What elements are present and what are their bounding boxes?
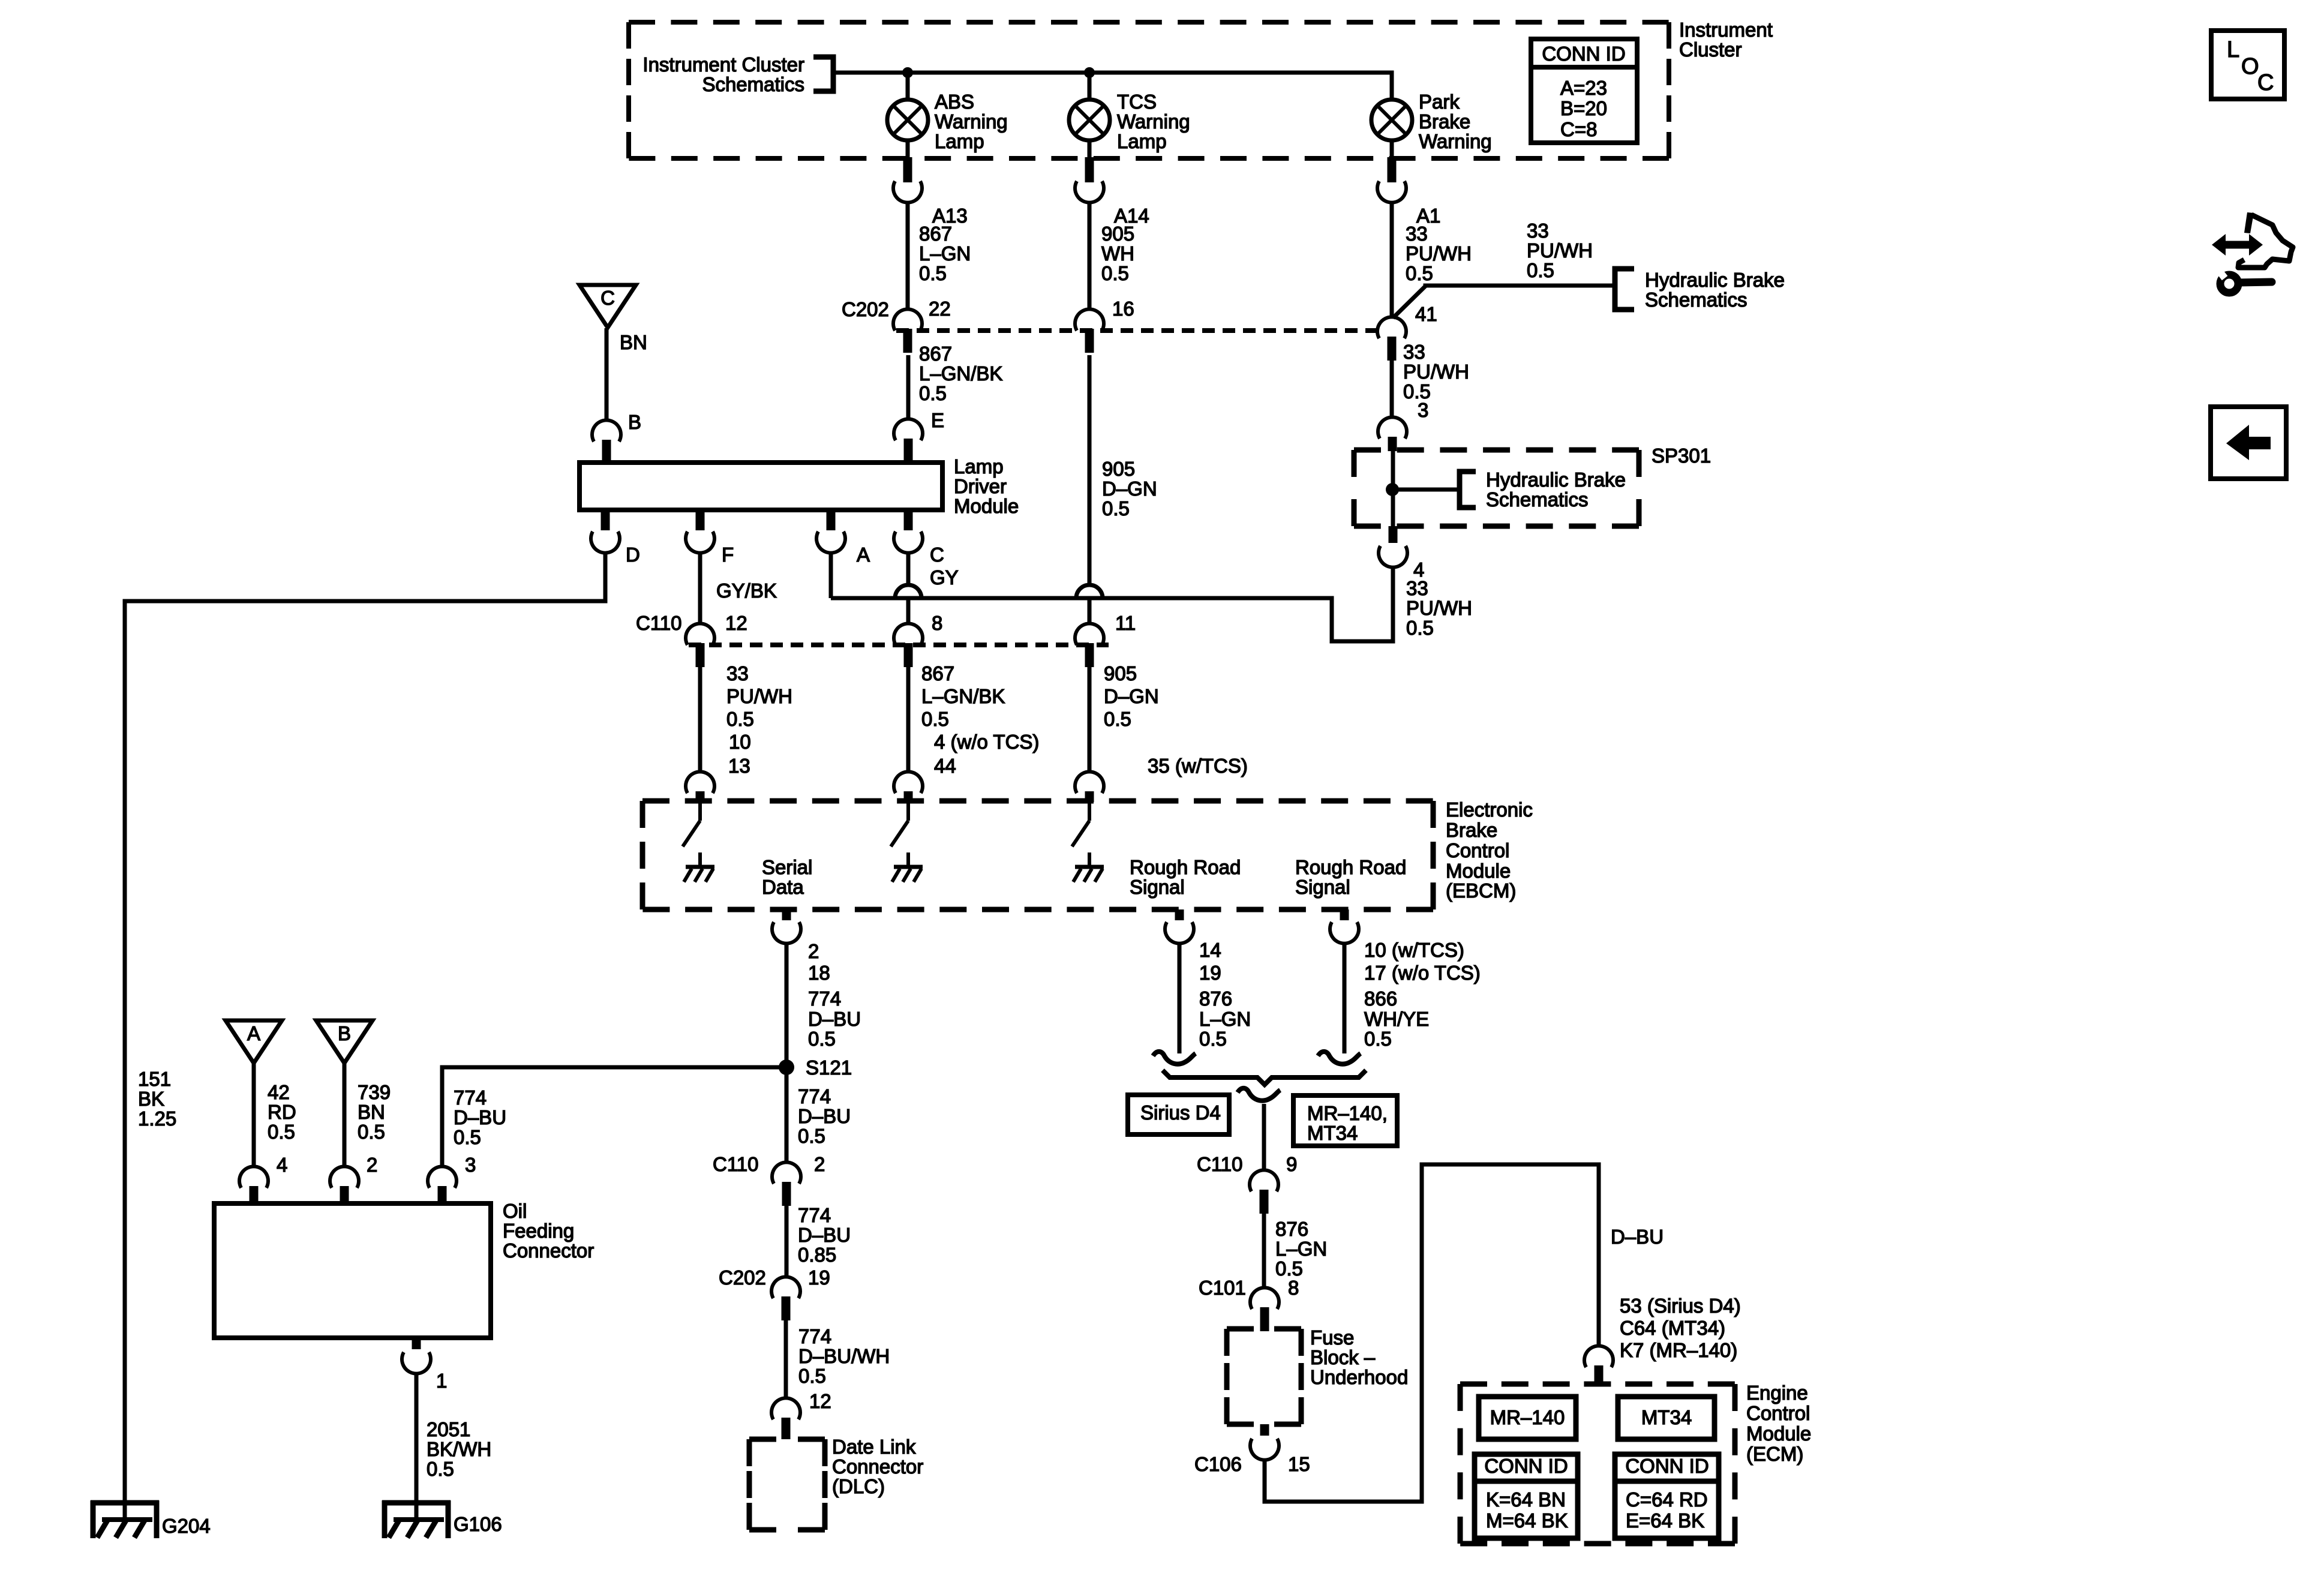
connector: fuse block pin 15 bbox=[1250, 1424, 1279, 1460]
svg-text:A: A bbox=[857, 544, 870, 566]
instrument cluster dashed box bbox=[629, 22, 1669, 158]
label: circuit 33 PU/WH 0.5 (F) bbox=[726, 662, 792, 730]
label: ECM pins bbox=[1620, 1295, 1741, 1361]
wire: jumper A/C to SP301 pin 4 bbox=[831, 567, 1393, 641]
wire: through SP301 bbox=[1391, 451, 1395, 526]
wire: 876 to C101 bbox=[1262, 1213, 1266, 1288]
svg-text:1: 1 bbox=[436, 1370, 447, 1392]
wire: serial data EBCM to S121 bbox=[785, 943, 789, 1067]
svg-text:A=23: A=23 bbox=[1560, 77, 1607, 99]
label: pin 3 (SP301) bbox=[1418, 399, 1428, 421]
svg-text:Cluster: Cluster bbox=[1679, 38, 1742, 61]
svg-text:876: 876 bbox=[1275, 1218, 1308, 1240]
svg-text:Lamp: Lamp bbox=[935, 130, 984, 152]
svg-text:D–GN: D–GN bbox=[1102, 478, 1157, 500]
svg-text:0.5: 0.5 bbox=[454, 1126, 481, 1148]
box: MR-140 MT34 bbox=[1293, 1095, 1397, 1146]
wire: ABS lamp drop bbox=[906, 73, 910, 100]
svg-text:866: 866 bbox=[1364, 987, 1397, 1010]
svg-text:33: 33 bbox=[726, 662, 749, 685]
svg-text:0.5: 0.5 bbox=[919, 382, 947, 404]
connector: triangle C bbox=[580, 285, 636, 328]
svg-text:L–GN: L–GN bbox=[1199, 1008, 1251, 1030]
connector: triangle A bbox=[226, 1020, 282, 1063]
svg-text:D–BU: D–BU bbox=[454, 1106, 506, 1128]
svg-text:C202: C202 bbox=[719, 1266, 766, 1289]
svg-text:Control: Control bbox=[1746, 1402, 1810, 1424]
svg-text:L–GN: L–GN bbox=[919, 242, 971, 265]
svg-text:Park: Park bbox=[1419, 91, 1460, 113]
wire: 876 from EBCM pin 14 bbox=[1178, 943, 1182, 1053]
label: C101 bbox=[1199, 1277, 1246, 1299]
connector: EBCM pin 2 bbox=[772, 909, 801, 944]
svg-text:0.5: 0.5 bbox=[1364, 1028, 1392, 1050]
svg-text:B=20: B=20 bbox=[1560, 97, 1607, 119]
label: circuit 33 PU/WH 0.5 (branch) bbox=[1527, 220, 1593, 281]
svg-text:B: B bbox=[338, 1022, 351, 1044]
lamp: Park Brake Warning bbox=[1371, 91, 1492, 152]
label: circuit 774 D-BU 0.5 (branch) bbox=[454, 1086, 506, 1148]
label: D-BU bbox=[1611, 1226, 1664, 1248]
node: junction dot TCS feed bbox=[1084, 67, 1095, 78]
module: Data Link Connector dashed box bbox=[749, 1436, 923, 1530]
svg-text:Module: Module bbox=[954, 495, 1019, 517]
node: junction dot ABS feed bbox=[902, 67, 913, 78]
label: circuit 876 L-GN 0.5 (low) bbox=[1275, 1218, 1327, 1280]
switch: EBCM 867 input bbox=[891, 801, 908, 846]
label: BN bbox=[620, 331, 647, 353]
brace: option select bbox=[1163, 1070, 1366, 1085]
wire: lamp lead A13 bbox=[906, 140, 910, 160]
svg-text:D: D bbox=[626, 544, 640, 566]
bracket: Hydraulic Brake Schematics (SP301) bbox=[1460, 469, 1626, 511]
svg-text:0.5: 0.5 bbox=[798, 1125, 825, 1147]
hop: GY wire over jumper bbox=[895, 585, 921, 598]
connector: C202 pin 22 bbox=[893, 298, 951, 353]
svg-text:C110: C110 bbox=[636, 612, 681, 634]
svg-text:C202: C202 bbox=[842, 298, 889, 320]
svg-text:41: 41 bbox=[1415, 303, 1437, 325]
wire: 42 RD bbox=[252, 1063, 256, 1167]
connector: cluster pin A13 bbox=[893, 157, 968, 227]
svg-text:CONN ID: CONN ID bbox=[1542, 43, 1625, 65]
lamp: TCS Warning Lamp bbox=[1069, 91, 1190, 152]
svg-text:Oil: Oil bbox=[503, 1200, 527, 1222]
wire: LDM A to jumper bbox=[829, 553, 833, 598]
connector: oil pin 1 bbox=[402, 1338, 447, 1392]
svg-text:TCS: TCS bbox=[1117, 91, 1157, 113]
svg-text:0.5: 0.5 bbox=[1102, 497, 1130, 520]
connector: C202 pin 19 bbox=[771, 1266, 830, 1320]
module: EBCM dashed box bbox=[642, 801, 1433, 909]
svg-text:Underhood: Underhood bbox=[1310, 1366, 1408, 1388]
bracket: Hydraulic Brake Schematics (top) bbox=[1615, 269, 1785, 311]
svg-text:C64 (MT34): C64 (MT34) bbox=[1620, 1317, 1725, 1339]
svg-text:(ECM): (ECM) bbox=[1746, 1443, 1803, 1465]
svg-text:905: 905 bbox=[1101, 223, 1134, 245]
svg-text:15: 15 bbox=[1288, 1453, 1310, 1475]
connector: C202 pin 41 bbox=[1377, 303, 1437, 361]
svg-text:Lamp: Lamp bbox=[1117, 130, 1167, 152]
wire: TCS lamp drop bbox=[1088, 73, 1092, 100]
svg-text:0.5: 0.5 bbox=[798, 1365, 826, 1387]
svg-text:BN: BN bbox=[620, 331, 647, 353]
connector: LDM pin B bbox=[592, 420, 621, 463]
svg-text:53 (Sirius D4): 53 (Sirius D4) bbox=[1620, 1295, 1741, 1317]
label: Engine Control Module (ECM) bbox=[1746, 1382, 1811, 1465]
svg-text:MT34: MT34 bbox=[1307, 1122, 1358, 1144]
svg-text:11: 11 bbox=[1115, 612, 1136, 634]
wire: lamp lead A1 bbox=[1390, 140, 1394, 160]
switch: EBCM serial data bbox=[683, 801, 700, 846]
connector: LDM pin C bbox=[894, 510, 944, 566]
svg-text:WH/YE: WH/YE bbox=[1364, 1008, 1429, 1030]
bracket: Instrument Cluster Schematics bbox=[642, 53, 833, 95]
svg-text:Date Link: Date Link bbox=[832, 1436, 916, 1458]
svg-text:0.5: 0.5 bbox=[1406, 262, 1433, 284]
connector: EBCM pin (905) bbox=[1075, 772, 1104, 802]
connector: LDM pin E bbox=[894, 419, 923, 463]
svg-text:L–GN: L–GN bbox=[1275, 1238, 1327, 1260]
svg-text:GY: GY bbox=[930, 566, 959, 589]
svg-text:0.5: 0.5 bbox=[921, 708, 949, 730]
wire: S121 to C110-2 bbox=[785, 1067, 789, 1163]
svg-text:3: 3 bbox=[1418, 399, 1428, 421]
svg-text:CONN ID: CONN ID bbox=[1484, 1455, 1568, 1477]
label: circuit 33 PU/WH 0.5 (A1) bbox=[1406, 223, 1472, 284]
label: circuit 774 D-BU 0.85 bbox=[798, 1204, 851, 1266]
connector: C110 pin 9 bbox=[1250, 1153, 1297, 1214]
label: GY/BK (pin F) bbox=[716, 580, 777, 602]
icon: LOC box bbox=[2211, 31, 2284, 99]
svg-text:Instrument Cluster: Instrument Cluster bbox=[642, 53, 804, 76]
svg-text:C110: C110 bbox=[713, 1153, 758, 1175]
svg-text:Connector: Connector bbox=[503, 1239, 594, 1262]
label: C106 bbox=[1194, 1453, 1242, 1475]
table: CONN ID (cluster) bbox=[1531, 39, 1637, 143]
svg-text:2: 2 bbox=[367, 1154, 377, 1176]
svg-text:10: 10 bbox=[729, 731, 751, 753]
label: circuit 867 L-GN/BK 0.5 (C) bbox=[921, 662, 1005, 730]
connector: cluster pin A1 bbox=[1377, 157, 1440, 227]
label: C110 (option) bbox=[1197, 1153, 1242, 1175]
svg-text:774: 774 bbox=[798, 1085, 831, 1107]
switch: EBCM 905 input bbox=[1072, 801, 1089, 846]
label: circuit 739 BN 0.5 bbox=[358, 1081, 391, 1143]
svg-text:Feeding: Feeding bbox=[503, 1220, 574, 1242]
svg-text:C106: C106 bbox=[1194, 1453, 1242, 1475]
svg-text:Data: Data bbox=[762, 876, 804, 898]
wire: 774 to C202 bbox=[785, 1206, 789, 1277]
svg-text:12: 12 bbox=[809, 1390, 831, 1412]
connector: SP301 pin 4 bbox=[1379, 526, 1424, 581]
svg-text:D–BU: D–BU bbox=[808, 1008, 861, 1030]
connector: C110 pin 11 bbox=[1075, 612, 1136, 667]
connector: DLC pin 12 bbox=[771, 1398, 800, 1439]
svg-text:14: 14 bbox=[1199, 939, 1221, 961]
wire: 905 to EBCM bbox=[1088, 667, 1092, 772]
svg-text:0.5: 0.5 bbox=[1527, 259, 1554, 281]
svg-text:867: 867 bbox=[919, 223, 952, 245]
connector: EBCM pin (serial) bbox=[686, 772, 714, 802]
connector: LDM pin D bbox=[591, 510, 640, 566]
svg-text:0.5: 0.5 bbox=[268, 1121, 295, 1143]
box: Sirius D4 bbox=[1128, 1095, 1229, 1134]
wire: LDM F to C110-12 bbox=[698, 553, 702, 624]
table: CONN ID (MT34) bbox=[1615, 1454, 1719, 1538]
svg-text:(EBCM): (EBCM) bbox=[1446, 879, 1516, 902]
svg-text:G106: G106 bbox=[454, 1513, 502, 1535]
svg-text:Control: Control bbox=[1446, 839, 1509, 861]
wire: 867 to EBCM bbox=[906, 667, 911, 772]
svg-text:739: 739 bbox=[358, 1081, 391, 1103]
label: circuit 774 D-BU 0.5 (serial) bbox=[808, 987, 861, 1050]
module: ECM dashed box bbox=[1460, 1384, 1735, 1544]
svg-text:Sirius D4: Sirius D4 bbox=[1140, 1101, 1221, 1124]
connector: C110 pin 2 bbox=[772, 1153, 825, 1206]
svg-text:0.5: 0.5 bbox=[919, 262, 947, 284]
svg-text:A: A bbox=[247, 1022, 260, 1044]
svg-text:0.5: 0.5 bbox=[1406, 617, 1434, 639]
svg-text:0.5: 0.5 bbox=[1199, 1028, 1227, 1050]
wire: 905 C202 to C110 bbox=[1088, 355, 1092, 624]
svg-text:Block –: Block – bbox=[1310, 1346, 1376, 1368]
svg-text:MR–140: MR–140 bbox=[1490, 1406, 1565, 1428]
svg-text:O: O bbox=[2241, 54, 2259, 79]
svg-text:Brake: Brake bbox=[1419, 110, 1470, 133]
svg-text:Fuse: Fuse bbox=[1310, 1326, 1354, 1349]
svg-text:GY/BK: GY/BK bbox=[716, 580, 777, 602]
svg-text:E: E bbox=[931, 409, 944, 431]
label: circuit 33 PU/WH 0.5 (below SP301) bbox=[1406, 577, 1472, 639]
svg-text:774: 774 bbox=[798, 1204, 831, 1226]
svg-text:MT34: MT34 bbox=[1641, 1406, 1692, 1428]
svg-text:PU/WH: PU/WH bbox=[1406, 242, 1472, 265]
svg-text:Rough Road: Rough Road bbox=[1130, 856, 1241, 878]
connector: EBCM pin 10 bbox=[1330, 909, 1359, 944]
svg-text:Hydraulic Brake: Hydraulic Brake bbox=[1645, 269, 1785, 291]
svg-text:L–GN/BK: L–GN/BK bbox=[921, 685, 1005, 707]
svg-text:PU/WH: PU/WH bbox=[726, 685, 792, 707]
wire: SP301 to bracket bbox=[1392, 488, 1460, 492]
connector: C110 pin 8 bbox=[894, 612, 942, 667]
svg-text:C101: C101 bbox=[1199, 1277, 1246, 1299]
svg-text:33: 33 bbox=[1527, 220, 1549, 242]
box: MT34 (ECM) bbox=[1618, 1397, 1715, 1439]
label: C202 bbox=[842, 298, 889, 320]
wire: 15 to ECM K7 bbox=[1265, 1164, 1599, 1502]
svg-text:Instrument: Instrument bbox=[1679, 19, 1773, 41]
svg-text:C: C bbox=[2257, 70, 2274, 95]
box: MR-140 (ECM) bbox=[1479, 1397, 1576, 1439]
svg-text:D–GN: D–GN bbox=[1104, 685, 1159, 707]
connector: EBCM pin (867) bbox=[894, 772, 923, 802]
label: C110 bbox=[636, 612, 681, 634]
svg-text:1.25: 1.25 bbox=[138, 1107, 176, 1130]
label: circuit 905 D-GN 0.5 (mid) bbox=[1102, 458, 1157, 520]
label: circuit 867 L-GN 0.5 bbox=[919, 223, 971, 284]
svg-text:CONN ID: CONN ID bbox=[1625, 1455, 1709, 1477]
svg-text:F: F bbox=[722, 544, 734, 566]
svg-text:4: 4 bbox=[277, 1154, 287, 1176]
connector: oil pin 2 bbox=[330, 1154, 377, 1203]
svg-text:ABS: ABS bbox=[935, 91, 974, 113]
svg-text:Serial: Serial bbox=[762, 856, 812, 878]
connector row: C202 dashed line bbox=[896, 328, 1379, 333]
svg-text:C110: C110 bbox=[1197, 1153, 1242, 1175]
svg-text:Engine: Engine bbox=[1746, 1382, 1808, 1404]
connector: C202 pin 16 bbox=[1075, 298, 1134, 353]
wire: branch to Hydraulic Brake Schematics bbox=[1393, 286, 1615, 318]
svg-text:Warning: Warning bbox=[1419, 130, 1492, 152]
label: GY (pin C) bbox=[930, 566, 959, 589]
wire: LDM D to ground run bbox=[125, 553, 605, 1520]
svg-text:42: 42 bbox=[268, 1081, 290, 1103]
label: circuit 905 WH 0.5 bbox=[1101, 223, 1134, 284]
svg-text:BK/WH: BK/WH bbox=[427, 1438, 491, 1460]
svg-text:C: C bbox=[930, 544, 944, 566]
label: circuit 151 BK 1.25 bbox=[138, 1068, 176, 1130]
svg-text:Schematics: Schematics bbox=[702, 73, 804, 95]
svg-text:905: 905 bbox=[1104, 662, 1137, 685]
svg-text:4 (w/o TCS): 4 (w/o TCS) bbox=[934, 731, 1039, 753]
wire: lamp lead A14 bbox=[1088, 140, 1092, 160]
node: SP301 splice dot bbox=[1386, 483, 1399, 496]
connector: LDM pin A bbox=[816, 510, 870, 566]
svg-text:G204: G204 bbox=[162, 1515, 211, 1537]
connector: cluster pin A14 bbox=[1075, 157, 1149, 227]
connector: SP301 pin 3 bbox=[1378, 417, 1407, 451]
label: circuit 774 D-BU 0.5 (below S121) bbox=[798, 1085, 851, 1147]
svg-text:2: 2 bbox=[814, 1153, 825, 1175]
label: pin B bbox=[628, 411, 641, 433]
label: circuit 33 PU/WH 0.5 (below 41) bbox=[1403, 341, 1469, 403]
svg-text:SP301: SP301 bbox=[1652, 445, 1711, 467]
wire: 866 from EBCM pin 10 bbox=[1343, 943, 1347, 1053]
svg-text:13: 13 bbox=[728, 755, 750, 777]
label: circuit 2051 BK/WH 0.5 bbox=[427, 1418, 491, 1480]
svg-text:0.85: 0.85 bbox=[798, 1244, 836, 1266]
label: C202 (serial) bbox=[719, 1266, 766, 1289]
svg-text:Connector: Connector bbox=[832, 1455, 923, 1478]
svg-text:Lamp: Lamp bbox=[954, 455, 1004, 478]
module: Fuse Block Underhood bbox=[1227, 1326, 1408, 1424]
svg-text:Driver: Driver bbox=[954, 475, 1007, 497]
svg-text:2: 2 bbox=[808, 940, 819, 962]
svg-text:PU/WH: PU/WH bbox=[1406, 597, 1472, 619]
wire: 867 to C202 bbox=[906, 202, 910, 310]
label: pins 4 44 bbox=[934, 731, 1039, 777]
svg-text:0.5: 0.5 bbox=[1104, 708, 1131, 730]
ground: G204 bbox=[91, 1500, 211, 1538]
wire: option to C110-9 bbox=[1262, 1104, 1266, 1170]
svg-text:Signal: Signal bbox=[1130, 876, 1185, 898]
svg-text:L–GN/BK: L–GN/BK bbox=[919, 362, 1002, 385]
svg-text:(DLC): (DLC) bbox=[832, 1475, 885, 1497]
svg-text:Schematics: Schematics bbox=[1645, 289, 1747, 311]
connector: oil pin 4 bbox=[239, 1154, 287, 1203]
svg-text:BK: BK bbox=[138, 1088, 164, 1110]
svg-text:33: 33 bbox=[1406, 223, 1428, 245]
label: Rough Road Signal 2 bbox=[1295, 856, 1406, 898]
wire: 33 to EBCM bbox=[698, 667, 702, 772]
label: Electronic Brake Control Module (EBCM) bbox=[1446, 798, 1533, 902]
svg-text:867: 867 bbox=[921, 662, 954, 685]
icon: jump-to (arrow and wrench) bbox=[2212, 212, 2293, 293]
svg-text:9: 9 bbox=[1286, 1153, 1297, 1175]
svg-text:867: 867 bbox=[919, 343, 952, 365]
hook: option wire top bbox=[1238, 1088, 1280, 1101]
svg-text:Module: Module bbox=[1746, 1422, 1811, 1445]
icon: back arrow bbox=[2211, 407, 2286, 479]
connector: triangle B bbox=[316, 1020, 373, 1063]
splice box: SP301 bbox=[1354, 445, 1711, 526]
module: Lamp Driver Module bbox=[580, 455, 1019, 517]
svg-text:D–BU: D–BU bbox=[798, 1224, 851, 1246]
wire: BN triangle C to LDM pin B bbox=[605, 328, 609, 421]
connector: C101 pin 8 bbox=[1250, 1277, 1299, 1331]
label: circuit 876 L-GN 0.5 bbox=[1199, 987, 1251, 1050]
svg-text:33: 33 bbox=[1406, 577, 1428, 599]
table: CONN ID (MR-140) bbox=[1475, 1454, 1578, 1538]
wire: 2051 BK/WH to G106 bbox=[415, 1373, 419, 1520]
svg-text:19: 19 bbox=[1199, 962, 1221, 984]
label: C110 (serial) bbox=[713, 1153, 758, 1175]
hook: 876 wire end bbox=[1153, 1052, 1196, 1064]
label: circuit 905 D-GN 0.5 (low) bbox=[1104, 662, 1159, 730]
wire: 905 to C202 bbox=[1088, 202, 1092, 310]
svg-text:Warning: Warning bbox=[1117, 110, 1190, 133]
label: pin 15 bbox=[1288, 1453, 1310, 1475]
svg-text:Electronic: Electronic bbox=[1446, 798, 1533, 821]
svg-text:Signal: Signal bbox=[1295, 876, 1350, 898]
svg-text:C: C bbox=[600, 287, 615, 309]
module: Oil Feeding Connector bbox=[214, 1200, 594, 1338]
svg-text:8: 8 bbox=[1288, 1277, 1299, 1299]
svg-text:L: L bbox=[2227, 37, 2239, 62]
svg-text:E=64 BK: E=64 BK bbox=[1626, 1509, 1704, 1532]
svg-text:0.5: 0.5 bbox=[427, 1458, 454, 1480]
svg-text:2051: 2051 bbox=[427, 1418, 470, 1440]
svg-text:WH: WH bbox=[1101, 242, 1134, 265]
wire: 867 to LDM pin E bbox=[906, 355, 911, 419]
label: pins 10 13 bbox=[728, 731, 751, 777]
svg-text:K7 (MR–140): K7 (MR–140) bbox=[1620, 1339, 1737, 1361]
svg-text:D–BU: D–BU bbox=[1611, 1226, 1664, 1248]
svg-text:D–BU/WH: D–BU/WH bbox=[798, 1345, 890, 1367]
label: Serial Data bbox=[762, 856, 812, 898]
svg-text:PU/WH: PU/WH bbox=[1403, 361, 1469, 383]
label: pins 10 17 bbox=[1364, 939, 1481, 984]
svg-text:17 (w/o TCS): 17 (w/o TCS) bbox=[1364, 962, 1481, 984]
label: circuit 867 L-GN/BK 0.5 bbox=[919, 343, 1002, 404]
label: circuit 866 WH/YE 0.5 bbox=[1364, 987, 1429, 1050]
svg-text:Hydraulic Brake: Hydraulic Brake bbox=[1486, 469, 1626, 491]
svg-text:D–BU: D–BU bbox=[798, 1105, 851, 1127]
hook: 866 wire end bbox=[1318, 1052, 1361, 1064]
svg-text:44: 44 bbox=[934, 755, 956, 777]
label: Instrument Cluster (top right) bbox=[1679, 19, 1773, 61]
svg-text:PU/WH: PU/WH bbox=[1527, 239, 1593, 262]
ground: EBCM internal 2 bbox=[892, 852, 923, 882]
connector: ECM pin bbox=[1584, 1346, 1613, 1384]
svg-text:K=64 BN: K=64 BN bbox=[1486, 1488, 1566, 1511]
svg-text:Warning: Warning bbox=[935, 110, 1008, 133]
svg-text:C=8: C=8 bbox=[1560, 118, 1597, 140]
svg-text:MR–140,: MR–140, bbox=[1307, 1102, 1388, 1124]
svg-text:Brake: Brake bbox=[1446, 819, 1497, 841]
svg-text:S121: S121 bbox=[806, 1056, 852, 1079]
